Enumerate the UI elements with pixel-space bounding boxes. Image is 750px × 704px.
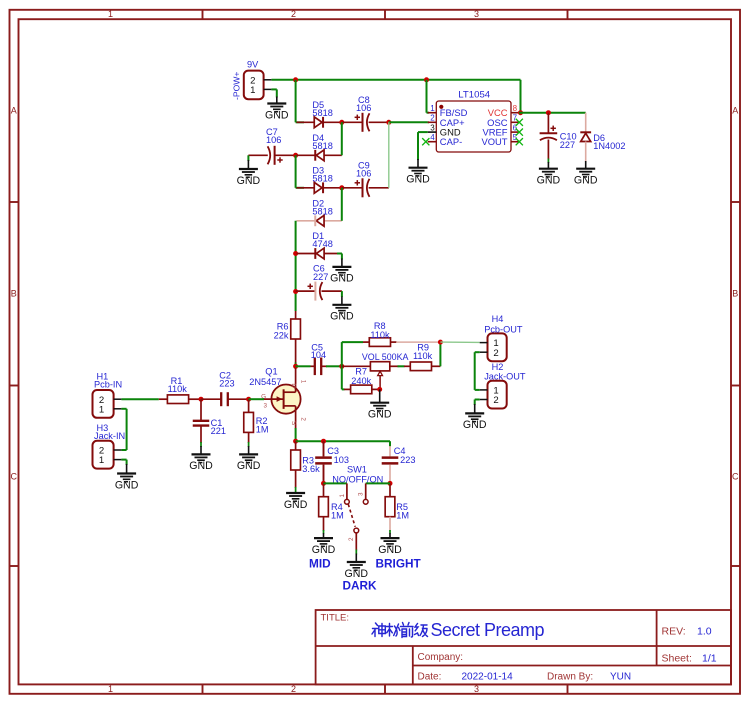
ground GND SW — [347, 562, 366, 570]
svg-text:3: 3 — [474, 684, 479, 694]
wire H2 pin2 to ground — [475, 399, 480, 401]
no-connect X pin7 — [516, 119, 523, 126]
svg-text:A: A — [732, 106, 738, 116]
diode D6 1N4002 — [585, 113, 587, 133]
svg-text:2: 2 — [291, 684, 296, 694]
junction FB/SD drop — [424, 77, 429, 82]
wire H3 pin1 to ground — [121, 459, 126, 461]
svg-text:TITLE:: TITLE: — [321, 613, 350, 624]
wire 9V- to ground — [271, 88, 276, 90]
svg-text:1: 1 — [250, 85, 255, 96]
resistor R4 1M — [323, 483, 325, 497]
resistor R6 22k — [295, 311, 297, 320]
wire D4 up to D5 node — [341, 122, 343, 155]
diode D1 4748 — [297, 248, 342, 259]
svg-text:1N4002: 1N4002 — [593, 141, 625, 151]
svg-text:2: 2 — [430, 114, 435, 123]
svg-text:Company:: Company: — [418, 652, 464, 663]
wire H4 pin2 to H2 pin1 — [475, 351, 480, 353]
svg-text:221: 221 — [211, 426, 226, 436]
svg-text:3: 3 — [358, 492, 365, 496]
wire C7 to ground — [247, 155, 249, 161]
svg-text:4: 4 — [430, 133, 435, 142]
svg-text:GND: GND — [312, 544, 336, 556]
title text Secret Preamp — [372, 623, 428, 638]
diode D4 5818 — [297, 150, 342, 161]
wire R8 to out node — [396, 341, 440, 343]
svg-text:GND: GND — [284, 499, 308, 511]
ground GND D1 — [332, 267, 351, 275]
capacitor C5 104 — [311, 365, 315, 367]
svg-text:2: 2 — [291, 9, 296, 19]
ground GND R5 — [381, 538, 400, 546]
ground GND D6 — [576, 169, 595, 177]
svg-text:1: 1 — [99, 404, 104, 415]
wire H1 pin1 to H3 pin2 — [121, 408, 126, 410]
svg-text:1: 1 — [300, 380, 307, 384]
svg-text:Secret Preamp: Secret Preamp — [431, 620, 545, 640]
svg-text:223: 223 — [400, 455, 415, 465]
svg-text:240k: 240k — [351, 376, 371, 386]
svg-text:Pcb-OUT: Pcb-OUT — [484, 324, 523, 334]
svg-text:104: 104 — [311, 350, 326, 360]
svg-text:1M: 1M — [256, 425, 269, 435]
svg-text:2: 2 — [493, 395, 498, 406]
ground GND C6 — [332, 305, 351, 313]
wire gate — [249, 398, 264, 400]
ground GND H2 — [465, 413, 484, 421]
wire C9 up to C8 out — [388, 122, 390, 188]
capacitor C9 106 — [342, 187, 363, 189]
capacitor C7 106 — [248, 154, 267, 156]
capacitor C6 227 — [296, 290, 316, 292]
resistor R2 1M — [248, 399, 250, 412]
svg-text:106: 106 — [266, 135, 281, 145]
connector H2 Jack-OUT — [488, 381, 507, 409]
svg-text:S: S — [290, 421, 297, 425]
connector H3 Jack-IN — [93, 441, 114, 469]
svg-text:8: 8 — [513, 104, 518, 113]
svg-text:GND: GND — [463, 419, 487, 431]
svg-text:C: C — [732, 472, 739, 482]
wire drop to FB/SD — [426, 80, 428, 113]
wire source row — [296, 440, 390, 442]
resistor R9 110k — [404, 365, 411, 367]
diode D2 5818 — [297, 215, 342, 226]
svg-text:GND: GND — [330, 273, 354, 285]
svg-text:5818: 5818 — [312, 141, 332, 151]
wire 9V to D5 — [295, 80, 297, 123]
junction wiper-R7 — [377, 387, 382, 392]
resistor R8 110k — [363, 341, 370, 343]
svg-text:-POW+: -POW+ — [232, 72, 242, 100]
svg-text:Date:: Date: — [418, 672, 442, 683]
svg-text:GND: GND — [378, 544, 402, 556]
ground GND wiper — [370, 403, 389, 411]
wire C8 to CAP+ — [389, 121, 428, 123]
junction VCC pin8 — [518, 110, 523, 115]
junction D3-C9 — [339, 185, 344, 190]
svg-text:A: A — [11, 106, 17, 116]
junction out node — [438, 340, 443, 345]
wire source down — [295, 428, 297, 441]
junction D5-C8 — [339, 120, 344, 125]
switch lever — [348, 504, 355, 527]
junction C2-R2-gate — [246, 397, 251, 402]
wire D4 node down to D3 — [295, 155, 297, 188]
wire D1 to ground — [337, 253, 342, 255]
svg-text:106: 106 — [356, 103, 371, 113]
resistor R3 3.6k — [295, 441, 297, 450]
svg-text:SW1: SW1 — [347, 465, 367, 475]
svg-text:Sheet:: Sheet: — [662, 653, 692, 665]
svg-text:B: B — [11, 289, 17, 299]
capacitor C8 106 — [342, 121, 363, 123]
capacitor C10 227 — [547, 113, 549, 134]
svg-text:GND: GND — [265, 109, 289, 121]
svg-text:2: 2 — [493, 348, 498, 359]
ground GND H3 — [117, 474, 136, 482]
ground GND C10 — [539, 169, 558, 177]
junction 9V rail — [293, 77, 298, 82]
svg-text:1: 1 — [430, 104, 435, 113]
svg-text:110k: 110k — [413, 351, 433, 361]
svg-text:B: B — [732, 289, 738, 299]
junction C10 — [546, 110, 551, 115]
resistor R5 1M — [389, 483, 391, 497]
svg-text:GND: GND — [368, 409, 392, 421]
wire out node to H4 — [440, 341, 479, 343]
title block — [316, 610, 731, 684]
junction C3 tap — [321, 439, 326, 444]
ground GND C7 — [239, 169, 258, 177]
op-amp U1 LT1054 — [436, 101, 511, 152]
wire VCC rail — [519, 112, 586, 114]
svg-text:2: 2 — [300, 417, 307, 421]
no-connect X pin6 — [516, 129, 523, 136]
svg-text:Pcb-IN: Pcb-IN — [94, 380, 122, 390]
svg-text:GND: GND — [115, 479, 139, 491]
ground GND 9V — [267, 104, 286, 112]
connector H4 Pcb-OUT — [488, 333, 507, 361]
wire C4 node to SW pin3 — [366, 482, 390, 484]
junction C3-R4-SW — [321, 481, 326, 486]
diode D3 5818 — [297, 182, 342, 193]
junction D4 node — [293, 153, 298, 158]
resistor R1 110k — [159, 398, 168, 400]
svg-text:VOL 500KA: VOL 500KA — [362, 352, 409, 362]
svg-text:110k: 110k — [370, 330, 390, 340]
svg-text:1: 1 — [108, 9, 113, 19]
svg-text:1/1: 1/1 — [702, 653, 717, 665]
svg-text:YUN: YUN — [610, 672, 631, 683]
junction D1 node — [293, 251, 298, 256]
svg-text:2: 2 — [348, 537, 355, 541]
junction C8 out — [386, 120, 391, 125]
ground GND U1 — [409, 168, 428, 176]
svg-text:22k: 22k — [274, 330, 289, 340]
svg-text:4748: 4748 — [312, 239, 332, 249]
svg-text:227: 227 — [313, 272, 328, 282]
junction source node — [293, 439, 298, 444]
wire node vertical R8-R7 — [341, 342, 343, 389]
no-connect X pin5 — [516, 138, 523, 145]
wire C3 node to SW pin1 — [324, 482, 347, 484]
pot wiper arrow — [378, 371, 383, 375]
capacitor C2 223 — [201, 398, 221, 400]
svg-text:C: C — [11, 472, 18, 482]
svg-text:H2: H2 — [492, 362, 504, 372]
svg-text:5818: 5818 — [312, 206, 332, 216]
transistor Q1 2N5457 — [271, 385, 300, 414]
svg-text:227: 227 — [560, 140, 575, 150]
svg-text:BRIGHT: BRIGHT — [376, 557, 422, 571]
wire R9 up to out node — [439, 342, 441, 366]
svg-text:1: 1 — [99, 455, 104, 466]
svg-text:103: 103 — [334, 455, 349, 465]
capacitor C1 221 — [200, 399, 202, 421]
svg-text:106: 106 — [356, 169, 371, 179]
svg-text:MID: MID — [309, 557, 331, 571]
ground GND C1 — [192, 454, 211, 462]
svg-text:REV:: REV: — [662, 626, 686, 638]
wire wiper to ground — [379, 389, 381, 402]
junction pot node — [339, 364, 344, 369]
resistor R7 240k — [342, 388, 345, 390]
svg-text:1: 1 — [339, 494, 346, 498]
wire D2 to D3 node — [341, 188, 343, 221]
svg-text:Jack-IN: Jack-IN — [94, 431, 125, 441]
wire C5 to pot node — [326, 365, 342, 367]
wire drop to VCC pin8 — [520, 80, 522, 113]
svg-text:GND: GND — [189, 460, 213, 472]
junction C6 node — [293, 289, 298, 294]
svg-text:1.0: 1.0 — [697, 626, 712, 638]
svg-text:VOUT: VOUT — [481, 136, 507, 147]
svg-text:3: 3 — [263, 402, 267, 409]
svg-text:Drawn By:: Drawn By: — [547, 672, 593, 683]
svg-text:DARK: DARK — [343, 579, 378, 593]
svg-text:5818: 5818 — [312, 108, 332, 118]
wire D2 node down — [295, 221, 297, 311]
svg-text:7: 7 — [513, 114, 518, 123]
wire pot to R9 — [398, 365, 405, 367]
svg-text:Jack-OUT: Jack-OUT — [484, 371, 526, 381]
svg-text:GND: GND — [406, 174, 430, 186]
svg-text:R7: R7 — [355, 366, 367, 376]
svg-text:Q1: Q1 — [265, 366, 277, 376]
wire to R8 — [342, 341, 363, 343]
no-connect X pin4 — [422, 138, 429, 145]
svg-text:GND: GND — [330, 311, 354, 323]
ground GND R4 — [314, 538, 333, 546]
svg-text:2022-01-14: 2022-01-14 — [462, 672, 514, 683]
svg-text:3: 3 — [430, 123, 435, 132]
wire LT1054 GND pin to ground — [418, 131, 428, 133]
svg-text:GND: GND — [574, 175, 598, 187]
svg-text:D: D — [290, 383, 297, 388]
svg-text:H4: H4 — [492, 314, 504, 324]
svg-text:1M: 1M — [396, 510, 409, 520]
svg-text:3.6k: 3.6k — [302, 464, 320, 474]
ground GND R2 — [239, 454, 258, 462]
svg-text:9V: 9V — [247, 59, 259, 69]
svg-text:2N5457: 2N5457 — [249, 377, 281, 387]
potentiometer VOL 500KA — [342, 365, 371, 367]
junction C4-R5-SW — [388, 481, 393, 486]
diode D5 5818 — [297, 117, 342, 128]
connector H1 Pcb-IN — [93, 390, 114, 418]
wire 9V+ rail — [271, 79, 520, 81]
svg-text:GND: GND — [537, 175, 561, 187]
ground GND R3 — [286, 493, 305, 501]
wire C6 to ground — [341, 291, 343, 297]
junction R1-C1 — [199, 397, 204, 402]
svg-text:223: 223 — [219, 378, 234, 388]
capacitor C4 223 — [389, 446, 391, 456]
svg-text:LT1054: LT1054 — [458, 89, 490, 100]
capacitor C3 103 — [323, 441, 325, 456]
svg-text:1: 1 — [108, 684, 113, 694]
svg-text:3: 3 — [474, 9, 479, 19]
wire SW common to ground — [355, 533, 357, 550]
svg-text:GND: GND — [237, 175, 261, 187]
svg-text:1M: 1M — [331, 510, 344, 520]
junction drain node — [293, 364, 298, 369]
wire H1 pin2 to R1 — [121, 398, 158, 400]
svg-text:110k: 110k — [168, 384, 188, 394]
svg-text:5818: 5818 — [312, 173, 332, 183]
connector 9V — [244, 71, 264, 100]
wire drain to C5 — [296, 365, 311, 367]
svg-text:CAP-: CAP- — [440, 136, 462, 147]
svg-text:GND: GND — [237, 460, 261, 472]
